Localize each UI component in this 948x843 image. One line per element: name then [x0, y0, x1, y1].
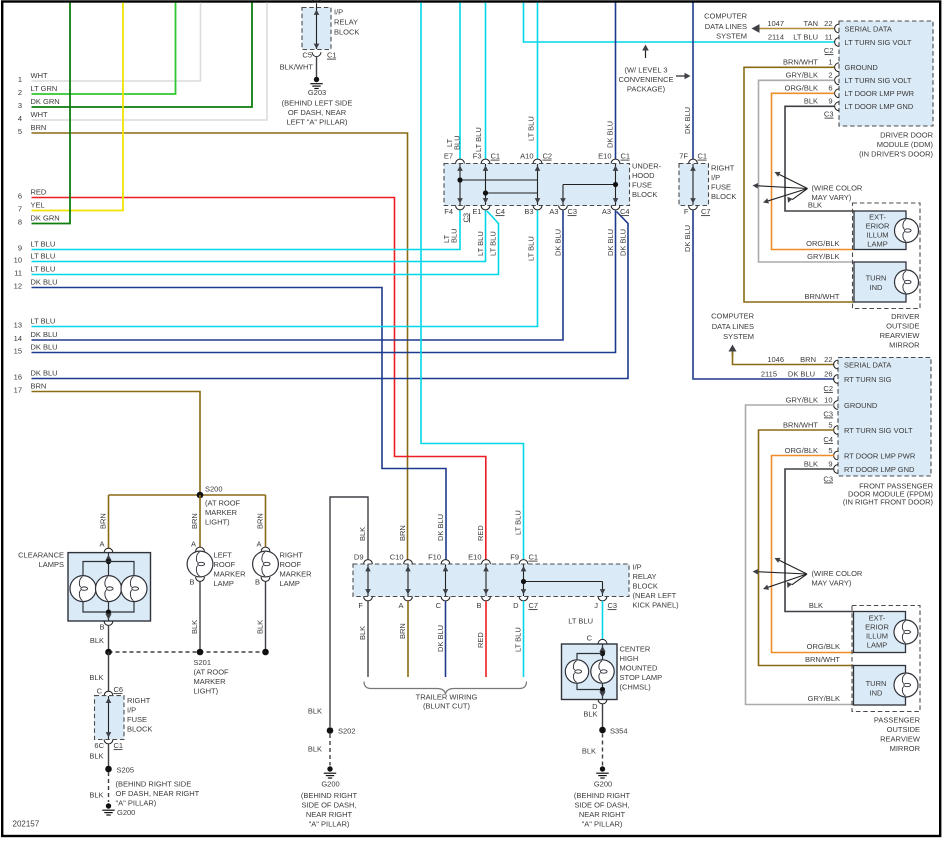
- wire BRN/WHT FPDM pin 5 to passenger turn indicator: [759, 430, 854, 666]
- svg-text:GRY/BLK: GRY/BLK: [786, 71, 818, 80]
- svg-text:BLK/WHT: BLK/WHT: [280, 63, 314, 72]
- relay block pin F: [364, 597, 373, 601]
- svg-text:3: 3: [18, 101, 22, 110]
- wire 8 DK GRN: [32, 3, 71, 224]
- svg-text:ORG/BLK: ORG/BLK: [807, 642, 840, 651]
- clearance lamps pin B: [104, 621, 113, 625]
- svg-text:BRN: BRN: [190, 513, 199, 529]
- arrow to computer data lines system: [752, 24, 760, 33]
- svg-text:10: 10: [824, 395, 832, 404]
- clearance lamps internal bus: [108, 553, 110, 576]
- svg-text:SIDE OF DASH,: SIDE OF DASH,: [301, 801, 356, 810]
- svg-text:G200: G200: [117, 808, 135, 817]
- svg-text:C1: C1: [529, 553, 539, 562]
- svg-text:A3: A3: [602, 207, 611, 216]
- splice S201 bus: [109, 651, 266, 653]
- trailer wire BLK from pin F: [367, 601, 369, 677]
- DDM pin 22 SERIAL DATA: [835, 24, 839, 33]
- svg-text:C1: C1: [621, 152, 631, 161]
- wire BLK S354 to ground G200: [602, 734, 604, 766]
- svg-text:A10: A10: [520, 152, 533, 161]
- svg-text:BRN: BRN: [99, 513, 108, 529]
- FPDM pin 5 RT DOOR LMP PWR: [834, 451, 838, 460]
- svg-text:WHT: WHT: [31, 71, 48, 80]
- svg-text:6: 6: [828, 84, 832, 93]
- svg-text:LT BLU: LT BLU: [568, 617, 593, 626]
- svg-text:11: 11: [14, 269, 22, 278]
- svg-text:G203: G203: [308, 88, 326, 97]
- svg-text:LEFT "A" PILLAR): LEFT "A" PILLAR): [286, 118, 348, 127]
- svg-text:D9: D9: [354, 553, 364, 562]
- svg-text:F4: F4: [444, 207, 453, 216]
- svg-text:12: 12: [14, 282, 22, 291]
- svg-text:BRN: BRN: [800, 355, 816, 364]
- splice S200: [109, 494, 266, 496]
- svg-text:8: 8: [18, 218, 22, 227]
- pin 6C, connector C1: [104, 740, 113, 744]
- svg-text:MAY VARY): MAY VARY): [812, 193, 852, 202]
- wire LT BLU feed to fuse block F3: [485, 3, 487, 160]
- fuse block pin F3, connector C1: [481, 159, 490, 163]
- arrow up to computer data lines system: [732, 350, 734, 357]
- wire LT BLU feed to fuse block E7: [459, 3, 461, 160]
- svg-text:LT TURN SIG VOLT: LT TURN SIG VOLT: [845, 76, 912, 85]
- svg-text:DRIVER: DRIVER: [891, 312, 920, 321]
- svg-text:GRY/BLK: GRY/BLK: [786, 395, 818, 404]
- svg-text:BRN: BRN: [398, 525, 407, 541]
- svg-text:ERIOR: ERIOR: [866, 222, 890, 231]
- svg-text:FUSE: FUSE: [632, 181, 652, 190]
- svg-text:14: 14: [14, 334, 22, 343]
- I/P relay block internal circuit: [316, 3, 318, 49]
- svg-text:LIGHT): LIGHT): [194, 687, 219, 696]
- svg-text:13: 13: [14, 321, 22, 330]
- driver exterior illum lamp: [854, 211, 906, 250]
- wire LT BLU feed to fuse block A10: [537, 3, 539, 160]
- svg-text:OUTSIDE: OUTSIDE: [887, 725, 920, 734]
- svg-text:LT BLU: LT BLU: [31, 252, 56, 261]
- svg-text:S205: S205: [117, 766, 135, 775]
- svg-text:10: 10: [14, 256, 22, 265]
- relay block pin E10: [482, 560, 491, 564]
- svg-text:ORG/BLK: ORG/BLK: [785, 84, 818, 93]
- svg-text:C3: C3: [608, 601, 618, 610]
- relay block pin B: [482, 597, 491, 601]
- svg-text:F: F: [684, 207, 689, 216]
- svg-text:LAMP: LAMP: [867, 240, 887, 249]
- DDM pin 6 LT DOOR LMP PWR: [835, 89, 839, 98]
- svg-text:7F: 7F: [679, 152, 688, 161]
- svg-text:BRN/WHT: BRN/WHT: [805, 292, 840, 301]
- svg-text:A3: A3: [549, 207, 558, 216]
- DDM pin 11 LT TURN SIG VOLT: [835, 38, 839, 47]
- svg-text:B3: B3: [524, 207, 533, 216]
- wire 9 LT BLU to fuse block F4: [32, 210, 461, 249]
- svg-text:"A" PILLAR): "A" PILLAR): [582, 820, 623, 829]
- wire GRY/BLK FPDM pin 10 to passenger turn indicator: [746, 405, 854, 705]
- svg-text:"A" PILLAR): "A" PILLAR): [309, 820, 350, 829]
- passenger exterior illum lamp: [854, 612, 906, 653]
- svg-text:(IN DRIVER'S DOOR): (IN DRIVER'S DOOR): [859, 150, 933, 159]
- svg-text:LT TURN SIG VOLT: LT TURN SIG VOLT: [845, 38, 912, 47]
- svg-text:REARVIEW: REARVIEW: [880, 735, 921, 744]
- svg-text:RIGHT: RIGHT: [127, 696, 151, 705]
- svg-text:OUTSIDE: OUTSIDE: [886, 322, 919, 331]
- svg-text:FUSE: FUSE: [711, 183, 731, 192]
- svg-text:MARKER: MARKER: [194, 677, 227, 686]
- svg-text:DK BLU: DK BLU: [31, 343, 58, 352]
- svg-text:CONVENIENCE: CONVENIENCE: [618, 75, 673, 84]
- svg-text:BLK: BLK: [90, 636, 104, 645]
- wire BLK clearance lamps B to splice S201: [108, 625, 110, 652]
- svg-text:BRN: BRN: [31, 123, 47, 132]
- relay block pin F10: [441, 560, 450, 564]
- svg-text:C3: C3: [823, 409, 833, 418]
- svg-text:C7: C7: [701, 207, 711, 216]
- wire 12 DK BLU to I/P relay block F10: [32, 288, 447, 560]
- svg-text:1: 1: [828, 58, 832, 67]
- splice S202: [327, 727, 334, 734]
- svg-text:1: 1: [18, 75, 22, 84]
- wire BLK FPDM pin 9 to passenger exterior illum lamp: [785, 469, 854, 612]
- svg-text:C1: C1: [114, 741, 124, 750]
- svg-text:BLK: BLK: [190, 620, 199, 634]
- svg-text:BRN/WHT: BRN/WHT: [805, 655, 840, 664]
- svg-text:BLK: BLK: [804, 97, 818, 106]
- svg-text:ORG/BLK: ORG/BLK: [785, 446, 818, 455]
- I/P relay block top pin: [312, 0, 321, 3]
- svg-text:BLK: BLK: [308, 745, 322, 754]
- svg-text:11: 11: [825, 32, 833, 41]
- svg-text:B: B: [255, 578, 260, 587]
- svg-text:HIGH: HIGH: [620, 654, 639, 663]
- svg-text:22: 22: [824, 19, 832, 28]
- svg-text:UNDER-: UNDER-: [632, 162, 662, 171]
- svg-text:OF DASH, NEAR RIGHT: OF DASH, NEAR RIGHT: [116, 789, 200, 798]
- svg-text:RT TURN SIG: RT TURN SIG: [844, 375, 892, 384]
- svg-text:A: A: [99, 540, 104, 549]
- svg-text:BLOCK: BLOCK: [127, 725, 152, 734]
- svg-text:LAMP: LAMP: [867, 641, 887, 650]
- svg-text:(BEHIND RIGHT: (BEHIND RIGHT: [301, 791, 358, 800]
- svg-text:MAY VARY): MAY VARY): [812, 579, 852, 588]
- wire 10 LT BLU to fuse block E1: [32, 210, 486, 261]
- svg-text:I/P: I/P: [127, 706, 136, 715]
- DDM pin 1 GROUND: [835, 63, 839, 72]
- svg-text:KICK PANEL): KICK PANEL): [633, 601, 680, 610]
- wire BLK right roof marker lamp B to S201: [265, 581, 267, 652]
- svg-text:DK BLU: DK BLU: [31, 330, 58, 339]
- svg-text:HOOD: HOOD: [632, 171, 655, 180]
- svg-text:(NEAR LEFT: (NEAR LEFT: [633, 591, 677, 600]
- wire 1046 BRN to FPDM pin 22: [733, 352, 835, 365]
- wire GRY/BLK DDM pin 2 to driver turn indicator: [759, 80, 855, 262]
- CHMSL bulb left: [565, 660, 588, 683]
- svg-text:17: 17: [14, 386, 22, 395]
- wire 13 LT BLU to fuse block B3: [32, 210, 538, 326]
- splice S205: [105, 766, 112, 773]
- fuse block pin E10, connector C1: [611, 159, 620, 163]
- svg-text:G200: G200: [594, 780, 612, 789]
- svg-text:(BEHIND RIGHT SIDE: (BEHIND RIGHT SIDE: [116, 780, 192, 789]
- relay block pin D, connector C7: [519, 597, 528, 601]
- wire BRN S200 to left roof marker lamp A: [199, 495, 201, 548]
- trailer wiring brace: [364, 682, 527, 695]
- svg-text:YEL: YEL: [31, 201, 45, 210]
- svg-text:2115: 2115: [761, 369, 777, 378]
- wire DK BLU feed to fuse block E10: [615, 3, 617, 160]
- svg-text:BLOCK: BLOCK: [334, 28, 359, 37]
- svg-text:D: D: [513, 601, 519, 610]
- svg-text:B: B: [99, 623, 104, 632]
- svg-text:EXT-: EXT-: [869, 614, 886, 623]
- svg-text:IND: IND: [870, 283, 884, 292]
- svg-text:(AT ROOF: (AT ROOF: [194, 668, 230, 677]
- svg-text:BLK: BLK: [308, 707, 322, 716]
- svg-text:4: 4: [18, 114, 22, 123]
- svg-text:IND: IND: [870, 689, 884, 698]
- wire 3 DK GRN: [32, 3, 253, 108]
- svg-text:22: 22: [824, 355, 832, 364]
- svg-text:C3: C3: [568, 207, 578, 216]
- svg-text:E1: E1: [472, 207, 481, 216]
- svg-text:CENTER: CENTER: [620, 645, 651, 654]
- svg-text:9: 9: [18, 244, 22, 253]
- svg-text:RELAY: RELAY: [633, 572, 657, 581]
- svg-text:BLU: BLU: [453, 135, 462, 150]
- svg-text:BRN: BRN: [398, 623, 407, 639]
- svg-text:MIRROR: MIRROR: [890, 744, 921, 753]
- svg-text:C: C: [587, 634, 593, 643]
- relay block pin D9: [364, 560, 373, 564]
- arrow up to LT BLU wire: [645, 50, 647, 58]
- fuse block pin B3: [533, 206, 542, 210]
- svg-text:MARKER: MARKER: [280, 570, 313, 579]
- svg-text:9: 9: [828, 97, 832, 106]
- svg-text:CLEARANCE: CLEARANCE: [18, 551, 64, 560]
- svg-text:GROUND: GROUND: [844, 401, 878, 410]
- svg-text:LT BLU: LT BLU: [527, 116, 536, 141]
- clearance lamp bulb 2: [96, 576, 122, 602]
- svg-text:BRN: BRN: [31, 382, 47, 391]
- svg-text:(CHMSL): (CHMSL): [620, 683, 652, 692]
- svg-text:C4: C4: [620, 207, 630, 216]
- svg-text:MARKER: MARKER: [205, 508, 238, 517]
- svg-text:C5: C5: [302, 51, 312, 60]
- svg-text:DK BLU: DK BLU: [606, 121, 615, 148]
- svg-text:C4: C4: [823, 435, 833, 444]
- svg-text:STOP LAMP: STOP LAMP: [620, 673, 663, 682]
- FPDM pin 26 RT TURN SIG: [834, 375, 838, 384]
- svg-text:C6: C6: [114, 685, 124, 694]
- svg-text:PACKAGE): PACKAGE): [627, 85, 666, 94]
- splice S354: [599, 727, 606, 734]
- svg-text:S201: S201: [194, 658, 212, 667]
- svg-text:LT BLU: LT BLU: [527, 236, 536, 261]
- svg-text:LT BLU: LT BLU: [31, 265, 56, 274]
- svg-text:REARVIEW: REARVIEW: [880, 331, 921, 340]
- svg-text:LT BLU: LT BLU: [514, 627, 523, 652]
- fuse block pin A3, connector C3: [559, 206, 568, 210]
- svg-text:(WIRE COLOR: (WIRE COLOR: [812, 569, 863, 578]
- svg-text:COMPUTER: COMPUTER: [704, 12, 748, 21]
- svg-text:DK BLU: DK BLU: [619, 229, 628, 256]
- svg-text:26: 26: [824, 369, 832, 378]
- svg-text:LT BLU: LT BLU: [474, 127, 483, 152]
- svg-text:F10: F10: [428, 553, 441, 562]
- wire 2 LT GRN: [32, 3, 176, 95]
- svg-text:I/P: I/P: [711, 173, 720, 182]
- svg-text:(WIRE COLOR: (WIRE COLOR: [812, 184, 863, 193]
- svg-text:BRN/WHT: BRN/WHT: [783, 420, 818, 429]
- svg-text:DK BLU: DK BLU: [683, 107, 692, 134]
- svg-text:BLK: BLK: [89, 673, 103, 682]
- svg-text:F: F: [358, 601, 363, 610]
- CHMSL pin D: [598, 700, 607, 704]
- ground G200 (center left): [327, 766, 332, 771]
- svg-text:LT BLU: LT BLU: [31, 317, 56, 326]
- fuse block internal circuits: [459, 164, 461, 205]
- svg-text:A: A: [398, 601, 403, 610]
- svg-text:DK BLU: DK BLU: [683, 225, 692, 252]
- svg-text:LEFT: LEFT: [214, 551, 233, 560]
- svg-text:MARKER: MARKER: [214, 570, 247, 579]
- svg-text:BLOCK: BLOCK: [711, 192, 736, 201]
- wire 5 BRN to under-dash I/P relay block C10: [32, 133, 408, 560]
- relay block pin C: [441, 597, 450, 601]
- wire 1 WHT: [32, 3, 201, 82]
- svg-text:5: 5: [828, 420, 832, 429]
- svg-text:G200: G200: [321, 780, 339, 789]
- relay block pin F9, connector C1: [519, 560, 528, 564]
- svg-text:BLOCK: BLOCK: [632, 190, 657, 199]
- wire ORG/BLK DDM pin 6 to driver exterior illum lamp: [772, 93, 855, 249]
- svg-text:DK BLU: DK BLU: [554, 229, 563, 256]
- svg-text:2: 2: [828, 71, 832, 80]
- svg-text:2: 2: [18, 88, 22, 97]
- wire BRN S200 to clearance lamps A: [108, 495, 110, 549]
- pin 7F, connector C1: [689, 159, 698, 163]
- svg-text:BLU: BLU: [450, 228, 459, 243]
- svg-text:B: B: [476, 601, 481, 610]
- right I/P fuse block (top): [679, 164, 709, 206]
- svg-text:C: C: [436, 601, 442, 610]
- svg-text:C2: C2: [543, 152, 553, 161]
- svg-text:16: 16: [14, 373, 22, 382]
- svg-text:SIDE OF DASH,: SIDE OF DASH,: [574, 801, 629, 810]
- svg-text:GROUND: GROUND: [845, 63, 879, 72]
- svg-text:MODULE (DDM): MODULE (DDM): [877, 140, 934, 149]
- driver outside rearview mirror assembly: [853, 203, 921, 309]
- svg-text:TAN: TAN: [804, 19, 818, 28]
- center high mounted stop lamp CHMSL: [562, 644, 618, 700]
- svg-text:"A" PILLAR): "A" PILLAR): [116, 799, 157, 808]
- svg-text:RED: RED: [476, 525, 485, 541]
- svg-text:C7: C7: [529, 601, 539, 610]
- svg-text:DATA LINES: DATA LINES: [712, 322, 754, 331]
- CHMSL bulb right: [591, 660, 614, 683]
- svg-text:LT BLU: LT BLU: [476, 231, 485, 256]
- svg-text:ROOF: ROOF: [214, 560, 236, 569]
- wire 1047 TAN to DDM pin 22: [760, 28, 835, 30]
- svg-text:BLK: BLK: [89, 791, 103, 800]
- svg-text:MIRROR: MIRROR: [889, 341, 920, 350]
- svg-text:A: A: [191, 540, 196, 549]
- svg-text:GRY/BLK: GRY/BLK: [807, 252, 839, 261]
- svg-text:BLK: BLK: [89, 752, 103, 761]
- svg-text:C2: C2: [823, 384, 833, 393]
- svg-text:ILLUM: ILLUM: [866, 632, 888, 641]
- svg-text:B: B: [189, 578, 194, 587]
- wire 15 DK BLU to fuse block A3 C4: [32, 210, 616, 352]
- fuse block pin E7: [456, 159, 465, 163]
- svg-text:DK BLU: DK BLU: [788, 369, 815, 378]
- svg-text:SERIAL DATA: SERIAL DATA: [845, 24, 892, 33]
- svg-text:202157: 202157: [13, 820, 40, 829]
- FPDM pin 10 GROUND: [834, 401, 838, 410]
- svg-text:(AT ROOF: (AT ROOF: [205, 499, 241, 508]
- svg-text:1046: 1046: [767, 355, 784, 364]
- passenger outside rearview mirror assembly: [852, 606, 920, 712]
- DDM pin 9 LT DOOR LMP GND: [835, 102, 839, 111]
- wire BRN S200 to right roof marker lamp A: [265, 495, 267, 548]
- svg-text:DK GRN: DK GRN: [31, 214, 60, 223]
- svg-text:C1: C1: [327, 51, 337, 60]
- wire 4 WHT: [32, 3, 268, 121]
- wire 17 BRN to splice S200: [32, 392, 201, 496]
- arrow right to DK BLU wire: [676, 75, 685, 77]
- svg-text:C3: C3: [823, 474, 833, 483]
- svg-text:E10: E10: [598, 152, 611, 161]
- svg-text:LAMP: LAMP: [214, 579, 234, 588]
- wire BLK S201 to right I/P fuse block C: [108, 652, 110, 691]
- I/P relay block (top): [302, 8, 331, 50]
- svg-text:ERIOR: ERIOR: [865, 623, 889, 632]
- trailer wire RED from pin B: [485, 601, 487, 677]
- svg-text:DATA LINES: DATA LINES: [705, 22, 747, 31]
- svg-text:I/P: I/P: [633, 563, 642, 572]
- svg-text:RED: RED: [476, 632, 485, 648]
- svg-text:LT BLU: LT BLU: [793, 32, 818, 41]
- svg-text:DK BLU: DK BLU: [606, 229, 615, 256]
- svg-text:SERIAL DATA: SERIAL DATA: [844, 360, 891, 369]
- driver door module DDM: [839, 21, 933, 126]
- svg-text:RT DOOR LMP GND: RT DOOR LMP GND: [844, 465, 915, 474]
- svg-text:BRN/WHT: BRN/WHT: [783, 58, 818, 67]
- svg-text:5: 5: [828, 446, 832, 455]
- ground G203: [314, 77, 319, 82]
- svg-text:(IN RIGHT FRONT DOOR): (IN RIGHT FRONT DOOR): [843, 498, 934, 507]
- wire BLK DDM pin 9 to driver exterior illum lamp: [785, 106, 854, 211]
- svg-text:C: C: [97, 687, 103, 696]
- I/P relay block (lower): [353, 564, 629, 597]
- wire ORG/BLK FPDM pin 5 to passenger exterior illum lamp: [772, 456, 854, 653]
- svg-text:(BEHIND LEFT SIDE: (BEHIND LEFT SIDE: [282, 99, 353, 108]
- svg-text:LT DOOR LMP PWR: LT DOOR LMP PWR: [845, 89, 915, 98]
- svg-text:MOUNTED: MOUNTED: [620, 664, 658, 673]
- svg-text:S202: S202: [338, 727, 356, 736]
- fuse block pin E1, connector C4: [481, 206, 490, 210]
- pin C5: [312, 52, 321, 56]
- svg-text:BLK: BLK: [804, 459, 818, 468]
- svg-text:TURN: TURN: [866, 679, 887, 688]
- svg-text:A: A: [256, 540, 261, 549]
- svg-text:LT BLU: LT BLU: [489, 231, 498, 256]
- wire BRN/WHT DDM pin 1 to driver turn indicator: [744, 67, 854, 302]
- svg-text:WHT: WHT: [31, 110, 48, 119]
- svg-text:SYSTEM: SYSTEM: [723, 332, 754, 341]
- wire BLK S202 to ground G200: [329, 734, 331, 766]
